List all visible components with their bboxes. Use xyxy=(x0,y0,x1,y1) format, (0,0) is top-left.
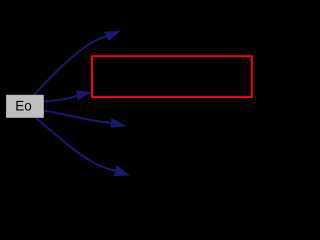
svg-text:Eo: Eo xyxy=(15,98,32,114)
